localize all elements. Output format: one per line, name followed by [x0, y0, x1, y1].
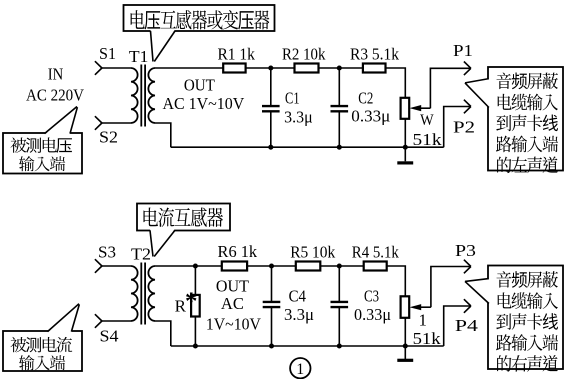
svg-text:S4: S4	[100, 327, 120, 346]
svg-text:C4: C4	[289, 287, 307, 306]
svg-text:C1: C1	[285, 89, 300, 108]
svg-text:C3: C3	[364, 287, 379, 306]
svg-text:W: W	[420, 112, 434, 129]
svg-text:P3: P3	[455, 241, 476, 260]
svg-text:C2: C2	[358, 89, 373, 108]
svg-text:1: 1	[419, 311, 428, 330]
svg-text:T1: T1	[129, 47, 149, 66]
svg-text:1: 1	[296, 361, 304, 378]
svg-text:AC 1V~10V: AC 1V~10V	[163, 94, 245, 113]
svg-text:3.3μ: 3.3μ	[284, 305, 314, 324]
svg-text:0.33μ: 0.33μ	[351, 107, 390, 126]
svg-text:3.3μ: 3.3μ	[284, 107, 313, 126]
svg-text:S3: S3	[98, 243, 116, 262]
svg-text:0.33μ: 0.33μ	[354, 305, 391, 324]
svg-text:T2: T2	[131, 245, 151, 264]
svg-text:OUT: OUT	[184, 75, 216, 94]
svg-text:R1 1k: R1 1k	[217, 45, 255, 64]
svg-text:OUT: OUT	[216, 277, 250, 296]
svg-text:*: *	[185, 288, 198, 315]
svg-text:P4: P4	[455, 316, 479, 335]
svg-text:S2: S2	[99, 128, 118, 147]
svg-text:51k: 51k	[413, 130, 443, 149]
svg-text:R2 10k: R2 10k	[282, 45, 326, 64]
svg-text:P1: P1	[453, 41, 473, 60]
svg-text:AC: AC	[221, 294, 244, 313]
svg-text:S1: S1	[99, 44, 116, 63]
svg-text:1V~10V: 1V~10V	[206, 315, 262, 334]
svg-text:R5 10k: R5 10k	[290, 243, 335, 262]
svg-text:R6 1k: R6 1k	[218, 242, 258, 261]
svg-text:R4 5.1k: R4 5.1k	[352, 243, 399, 262]
svg-text:R3 5.1k: R3 5.1k	[350, 45, 399, 64]
svg-text:51k: 51k	[413, 329, 442, 348]
svg-text:AC 220V: AC 220V	[26, 86, 85, 105]
svg-text:IN: IN	[48, 65, 64, 84]
svg-text:P2: P2	[453, 118, 475, 137]
